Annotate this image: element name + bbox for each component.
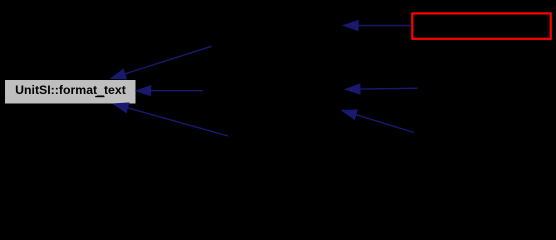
node UnitSI::format_text — [5, 80, 136, 104]
wire edge caller3 to UnitSI::format_text — [114, 103, 228, 136]
svg-text:UnitSI::format_text: UnitSI::format_text — [15, 83, 126, 97]
wire edge red box to caller1 — [344, 21, 411, 31]
wire edge caller5 to caller3 — [342, 110, 414, 133]
wire edge caller1 to UnitSI::format_text — [111, 46, 212, 79]
wire edge caller2 to UnitSI::format_text — [136, 86, 203, 96]
wire edge caller4 to caller2 — [345, 84, 417, 94]
node truncated (red box) — [412, 13, 550, 38]
